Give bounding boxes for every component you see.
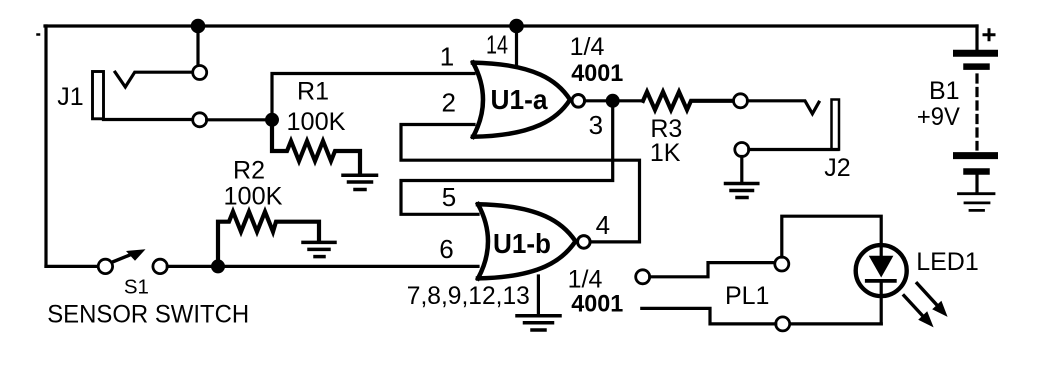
svg-text:U1-a: U1-a [491,84,548,115]
svg-text:14: 14 [486,30,508,60]
wire pin 2 feedback from U1-b output [401,125,640,242]
wire pin 6 [218,265,478,268]
op-amp U1-b (NOR gate) [478,204,488,278]
wire battery to ground [975,175,978,192]
LED1 light arrow 2 [904,296,923,317]
battery B1 [975,26,978,50]
battery plate long bottom [957,152,995,159]
terminal circle J2 tip [734,94,748,108]
jack J2 plug bar [832,100,840,150]
battery dashed middle [975,75,978,149]
svg-text:R1: R1 [297,78,329,106]
svg-text:4001: 4001 [571,60,623,87]
wire J2 ground drop [740,157,743,182]
svg-text:5: 5 [442,182,456,212]
svg-text:7,8,9,12,13: 7,8,9,12,13 [407,282,530,310]
svg-text:1K: 1K [650,139,681,167]
svg-text:2: 2 [441,88,455,118]
svg-text:J2: J2 [824,154,850,182]
ground U1-b [517,316,560,330]
wire J2 sleeve [749,148,838,151]
output bubble U1-a [572,95,585,108]
svg-text:LED1: LED1 [916,248,979,276]
jack J1 tip spring contact [115,72,192,87]
wire S1 to junction [167,265,218,268]
resistor R1 [272,120,360,173]
terminal circle PL1 top [636,270,650,284]
ground R2 [303,242,335,256]
svg-text:S1: S1 [124,276,149,299]
svg-text:1/4: 1/4 [568,266,603,294]
wire top rail [45,24,977,27]
switch S1 arm [113,255,132,263]
switch S1 terminal circle left [98,259,112,273]
wire PL1 top lead [650,263,775,277]
ground B1 [959,194,995,211]
svg-text:SENSOR SWITCH: SENSOR SWITCH [47,301,249,329]
stray speck [38,33,40,36]
LED1 light arrow 1 [917,283,937,305]
ground R1 [343,175,377,189]
jack J2 tip spring [748,101,819,114]
wire PL1 bottom lead [642,308,776,324]
terminal circle PL1 socket top [775,257,789,271]
svg-text:1/4: 1/4 [570,33,605,61]
wire node3 feedback to pin 5 [401,101,613,215]
LED1 body circle [856,245,907,296]
wire node to pin 1 [272,74,474,120]
svg-text:4: 4 [596,210,610,240]
svg-text:4001: 4001 [571,291,623,318]
node junction top rail J1 [191,19,206,34]
svg-text:U1-b: U1-b [493,228,551,259]
wire pin 7 ground stub [537,276,540,314]
wire pin 14 [515,26,518,66]
wire output 3 to R3 [585,99,643,102]
battery plate short bottom [967,168,987,175]
switch S1 terminal circle right [153,259,167,273]
svg-text:PL1: PL1 [725,282,769,310]
wire J1 sleeve [104,118,193,121]
plus sign B1 [984,30,994,40]
node junction pin1 net [265,113,279,127]
svg-text:3: 3 [589,110,603,140]
svg-text:B1: B1 [929,77,960,105]
wire J1 sleeve to node [207,118,272,121]
terminal circle J1 tip [193,66,207,80]
battery plate short top [967,63,987,70]
node junction S1/R2 [211,259,225,273]
terminal circle J2 sleeve [735,143,749,157]
resistor R3 [643,92,734,110]
LED1 cathode bar [867,279,895,283]
svg-text:6: 6 [439,234,453,264]
svg-text:R2: R2 [233,157,265,185]
svg-text:100K: 100K [224,183,283,211]
wire J1 tip drop [196,26,199,65]
wire left to S1 [46,265,98,268]
battery plate long top [957,50,995,57]
resistor R2 [218,212,319,267]
op-amp U1-a (NOR gate) [473,63,483,137]
wire PL1 socket top to LED [782,216,881,257]
terminal circle J1 sleeve [193,113,207,127]
output bubble U1-b [578,236,591,249]
node junction pin 14 [509,19,524,34]
terminal circle PL1 socket bottom [776,317,790,331]
wire LED bottom to PL1 socket bottom [790,322,882,325]
LED1 cathode lead [880,281,883,324]
node junction pin 3 [606,94,620,108]
ground J2 [726,184,758,198]
svg-text:100K: 100K [287,108,346,136]
svg-text:1: 1 [440,42,454,72]
wire left edge [44,26,47,266]
LED1 triangle [880,246,883,256]
svg-text:+9V: +9V [917,103,960,131]
jack J1 plug bar [93,72,104,119]
svg-text:J1: J1 [57,83,83,111]
